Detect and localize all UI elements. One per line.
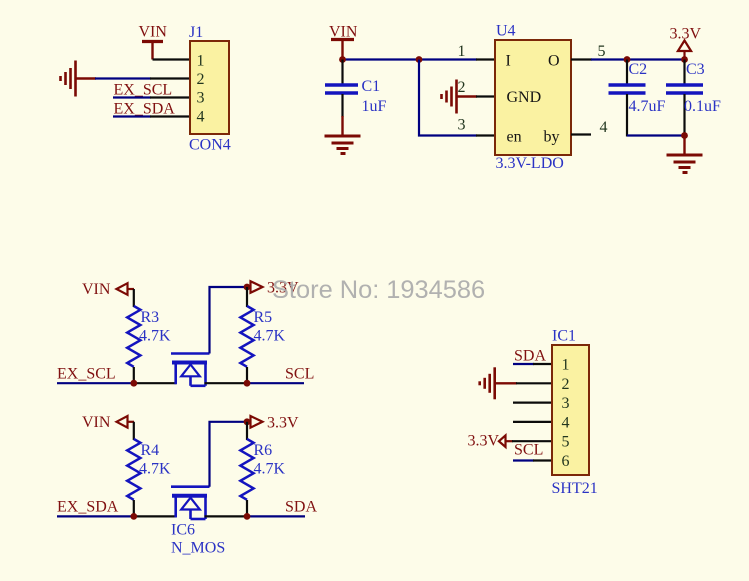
wire gate of IC6 to 3.3V — [210, 422, 248, 487]
node junction at C2 top — [624, 56, 631, 63]
wire VIN to J1 pin 1 — [153, 58, 191, 60]
wire R4 to EX_SDA rail — [133, 500, 135, 516]
svg-text:1: 1 — [562, 357, 570, 374]
wire C2/C3 bottom — [627, 134, 685, 136]
resistor R6 — [240, 439, 253, 500]
svg-text:J1: J1 — [189, 24, 203, 41]
svg-text:Store No: 1934586: Store No: 1934586 — [272, 276, 485, 304]
sensor IC1 body (SHT21) — [552, 345, 589, 475]
wire SDA rail — [205, 515, 306, 517]
svg-text:1uF: 1uF — [362, 98, 387, 115]
power port 3.3V (top) — [678, 41, 691, 60]
svg-text:3.3V: 3.3V — [468, 433, 500, 450]
svg-text:C3: C3 — [686, 61, 705, 78]
wire R5 to SCL rail — [246, 367, 248, 383]
svg-text:3.3V: 3.3V — [267, 414, 299, 431]
connector J1 body — [190, 41, 229, 134]
svg-text:2: 2 — [562, 376, 570, 393]
svg-text:R6: R6 — [254, 442, 273, 459]
node junction at C3 bottom — [681, 132, 688, 139]
node junction at C3 top — [681, 56, 688, 63]
svg-text:GND: GND — [507, 89, 542, 106]
svg-text:3.3V: 3.3V — [670, 26, 702, 43]
svg-text:VIN: VIN — [329, 24, 358, 41]
wire EX_SDA rail — [57, 515, 177, 517]
ground (J1 pin 2) — [61, 61, 97, 97]
svg-text:5: 5 — [598, 43, 606, 60]
svg-text:3: 3 — [197, 90, 205, 107]
wire VIN to R3 — [133, 289, 135, 307]
svg-text:IC6: IC6 — [171, 522, 195, 539]
ground (IC1 pin 2) — [480, 367, 517, 399]
wire SCL to IC1 pin 6 — [513, 459, 552, 461]
svg-text:4: 4 — [600, 119, 608, 136]
transistor Q1 (SCL n-mosfet) — [171, 354, 210, 386]
svg-text:3: 3 — [562, 395, 570, 412]
svg-text:R4: R4 — [141, 442, 160, 459]
svg-text:EX_SCL: EX_SCL — [114, 82, 173, 99]
node junction at en branch — [416, 56, 423, 63]
node junction gate/R5 — [244, 284, 251, 291]
svg-text:SCL: SCL — [285, 366, 314, 383]
svg-text:EX_SDA: EX_SDA — [114, 101, 176, 118]
svg-text:EX_SDA: EX_SDA — [57, 499, 119, 516]
ground (below C1) — [325, 116, 361, 154]
wire en branch — [419, 60, 495, 136]
svg-text:5: 5 — [562, 434, 570, 451]
wire R3 to EX_SCL rail — [133, 367, 135, 383]
svg-text:by: by — [544, 129, 560, 146]
wire EX_SDA to J1 pin 4 — [113, 115, 190, 117]
svg-text:4.7uF: 4.7uF — [629, 98, 666, 115]
svg-text:I: I — [506, 53, 511, 70]
svg-text:4.7K: 4.7K — [139, 328, 171, 345]
resistor R5 — [240, 306, 253, 367]
node junction R3/EX_SCL — [130, 380, 137, 387]
capacitor C3 — [666, 60, 703, 137]
wire EX_SCL rail — [57, 382, 177, 384]
capacitor C1 — [325, 60, 358, 118]
svg-text:2: 2 — [458, 79, 466, 96]
wire gate of Q1 to 3.3V — [210, 287, 248, 354]
svg-text:C1: C1 — [362, 78, 381, 95]
svg-text:VIN: VIN — [139, 24, 168, 41]
svg-text:SCL: SCL — [514, 442, 543, 459]
svg-text:3: 3 — [458, 117, 466, 134]
svg-text:SDA: SDA — [514, 348, 546, 365]
wire R6 to SDA rail — [246, 500, 248, 516]
resistor R3 — [127, 306, 140, 367]
wire U4 pin 2 — [476, 95, 495, 97]
svg-text:CON4: CON4 — [189, 137, 231, 154]
power port 3.3V (IC1 pin 5) — [499, 435, 513, 447]
svg-text:2: 2 — [197, 71, 205, 88]
svg-text:U4: U4 — [496, 23, 516, 40]
wire IC1 pin 3 stub — [513, 402, 552, 404]
svg-text:4: 4 — [562, 414, 570, 431]
wire U4 pin 5 output — [571, 58, 685, 60]
ground (U4 pin 2) — [442, 80, 478, 114]
wire VIN rail to U4 pin 1 — [342, 58, 495, 60]
wire 3.3V to IC1 pin 5 — [512, 440, 552, 442]
resistor R4 — [127, 439, 140, 500]
svg-text:O: O — [548, 53, 560, 70]
wire U4 pin 4 stub — [571, 133, 591, 135]
wire IC1 pin 4 stub — [513, 421, 552, 423]
op-amp U4 body (3.3V LDO) — [495, 40, 571, 155]
svg-text:N_MOS: N_MOS — [171, 540, 225, 557]
svg-text:SDA: SDA — [285, 499, 317, 516]
wire ground to J1 pin 2 — [95, 77, 190, 79]
svg-text:6: 6 — [562, 453, 570, 470]
node junction at VIN/C1 — [339, 56, 346, 63]
svg-text:3.3V-LDO: 3.3V-LDO — [496, 155, 564, 172]
wire SCL rail — [205, 382, 305, 384]
wire SDA to IC1 pin 1 — [513, 363, 552, 365]
svg-text:C2: C2 — [629, 61, 648, 78]
wire ground to IC1 pin 2 — [516, 382, 552, 384]
ground (below C3) — [667, 136, 703, 173]
node junction gate/R6 — [244, 418, 251, 425]
wire EX_SCL to J1 pin 3 — [113, 96, 190, 98]
svg-text:4.7K: 4.7K — [254, 328, 286, 345]
wire VIN to R4 — [133, 422, 135, 440]
node junction R5/SCL — [244, 380, 251, 387]
wire 3.3V to R5 — [246, 287, 248, 307]
power port 3.3V (SDA shifter) — [247, 416, 263, 428]
capacitor C2 — [609, 60, 646, 137]
svg-text:4.7K: 4.7K — [139, 461, 171, 478]
svg-text:IC1: IC1 — [552, 328, 576, 345]
power port VIN (SCL shifter) — [117, 283, 135, 295]
svg-text:en: en — [507, 129, 522, 146]
svg-text:4: 4 — [197, 109, 205, 126]
power port VIN (J1) — [142, 42, 163, 60]
power port VIN (SDA shifter) — [117, 416, 135, 428]
power port 3.3V (SCL shifter) — [247, 281, 263, 293]
svg-text:4.7K: 4.7K — [254, 461, 286, 478]
node junction R4/EX_SDA — [130, 513, 137, 520]
svg-text:1: 1 — [458, 43, 466, 60]
svg-text:VIN: VIN — [82, 281, 111, 298]
svg-text:VIN: VIN — [82, 414, 111, 431]
power port VIN (LDO input) — [331, 40, 354, 60]
transistor IC6 (SDA n-mosfet) — [171, 487, 210, 519]
svg-text:R5: R5 — [254, 309, 273, 326]
svg-text:R3: R3 — [141, 309, 160, 326]
node junction R6/SDA — [244, 513, 251, 520]
svg-text:SHT21: SHT21 — [552, 480, 598, 497]
wire 3.3V to R6 — [246, 422, 248, 440]
svg-text:0.1uF: 0.1uF — [684, 98, 721, 115]
svg-text:1: 1 — [197, 53, 205, 70]
svg-text:EX_SCL: EX_SCL — [57, 366, 116, 383]
